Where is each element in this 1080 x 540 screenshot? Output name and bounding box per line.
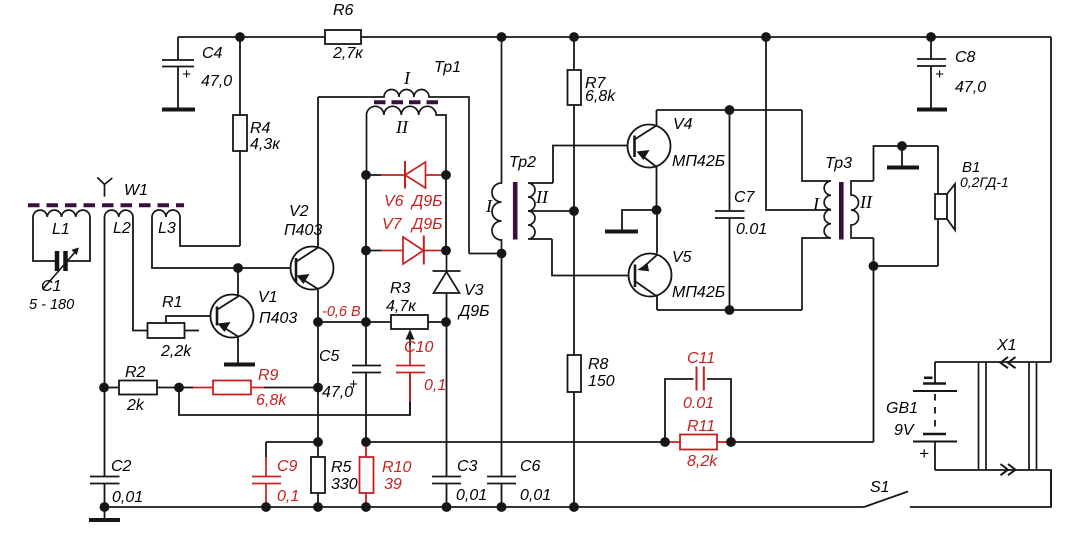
resistor R8: [568, 355, 582, 507]
node C6 bottom on rail: [497, 502, 507, 512]
wire Tp3-II top to speaker top: [874, 146, 939, 181]
svg-text:V4: V4: [673, 116, 693, 133]
node Tp2 winding I bottom: [497, 249, 507, 259]
wire L1 loop: [33, 217, 90, 261]
svg-text:R2: R2: [125, 364, 146, 381]
svg-text:R6: R6: [333, 2, 354, 19]
node Tp2 winding I bottom: [469, 253, 502, 255]
winding I of Tp3: [802, 110, 831, 310]
transformer Tp2: [485, 37, 553, 254]
svg-text:C8: C8: [955, 49, 976, 66]
speaker B1: [935, 146, 955, 266]
svg-text:С10: С10: [404, 339, 433, 356]
node R11/C11 right: [726, 437, 736, 447]
svg-text:I: I: [403, 68, 411, 88]
ferrite rod (dashed core): [28, 203, 184, 207]
svg-text:X1: X1: [996, 337, 1017, 354]
node R3 left / C5 top: [361, 317, 371, 327]
node Tp2 centre tap at R7/R8: [569, 206, 579, 216]
svg-text:I: I: [812, 194, 820, 214]
antenna W1: [97, 178, 112, 197]
node V1 collector / V2 base junction: [233, 263, 243, 273]
svg-text:V1: V1: [258, 289, 278, 306]
wire R11 node to Tp3-II bottom vertical: [731, 441, 874, 443]
resistor R6: [325, 30, 361, 44]
wire top rail: [178, 36, 1051, 38]
ground at Tp3-II top: [901, 146, 903, 166]
svg-text:+: +: [935, 66, 944, 83]
svg-text:R3: R3: [390, 280, 411, 297]
svg-text:L1: L1: [52, 221, 70, 238]
node C7 bottom on V5 collector wire: [725, 305, 735, 315]
svg-text:Д9Б: Д9Б: [410, 216, 443, 233]
node R9 right on emitter line: [313, 383, 323, 393]
svg-text:2,7к: 2,7к: [332, 45, 364, 62]
capacitor C3: [432, 322, 461, 507]
battery GB1: [913, 362, 957, 470]
wire Tp3-II bottom node: [874, 238, 939, 442]
node R2/R9/C10 junction: [174, 383, 184, 393]
connector X1: [935, 357, 1051, 507]
node C7 top on V4 collector wire: [725, 105, 735, 115]
svg-text:S1: S1: [870, 479, 890, 496]
node R5 bottom on rail: [313, 502, 323, 512]
svg-text:C2: C2: [111, 458, 132, 475]
transistor V4: [628, 110, 671, 210]
inductor L3: [152, 210, 180, 217]
svg-text:0,2ГД-1: 0,2ГД-1: [960, 174, 1009, 190]
winding I of Tp1: [318, 90, 469, 254]
svg-text:МП42Б: МП42Б: [672, 284, 725, 301]
resistor R10: [360, 442, 374, 507]
resistor R11: [665, 435, 731, 450]
node Tp3 secondary bottom / speaker: [869, 261, 879, 271]
svg-text:+: +: [349, 376, 358, 393]
winding II of Tp3: [851, 181, 874, 238]
capacitor C6: [487, 254, 516, 508]
svg-text:II: II: [535, 187, 549, 207]
winding I of Tp2: [492, 37, 502, 254]
svg-text:+: +: [919, 444, 929, 463]
svg-text:С11: С11: [687, 350, 715, 367]
transformer Tp3: [802, 110, 874, 310]
inductor L2: [105, 210, 134, 217]
core of Tp2: [513, 182, 518, 240]
svg-text:C3: C3: [457, 458, 478, 475]
node R5 top / C9: [313, 437, 323, 447]
node R10 bottom on rail: [361, 502, 371, 512]
wire Tp2-II centre tap to R7/R8: [528, 210, 574, 212]
transformer Tp1: [318, 59, 469, 254]
node C5 bottom / R10 top: [361, 437, 371, 447]
capacitor C8: [917, 37, 947, 110]
svg-text:9V: 9V: [894, 422, 915, 439]
wire L2 right down to R1: [133, 217, 148, 331]
svg-text:Тр2: Тр2: [509, 154, 536, 171]
resistor R5: [311, 442, 325, 507]
capacitor C9: [252, 442, 299, 512]
wire V6/V7 ladder verticals: [366, 175, 446, 322]
svg-text:Д9Б: Д9Б: [457, 303, 490, 320]
junction dots on top rail: [235, 32, 936, 42]
transistor V2: [291, 97, 334, 322]
core of Tp1: [374, 100, 438, 104]
svg-text:Д9Б: Д9Б: [410, 193, 443, 210]
svg-text:L2: L2: [113, 220, 131, 237]
svg-text:47,0: 47,0: [201, 73, 232, 90]
svg-text:V5: V5: [672, 249, 692, 266]
svg-text:0,01: 0,01: [456, 487, 487, 504]
svg-text:R5: R5: [331, 459, 352, 476]
switch S1: [864, 492, 908, 508]
svg-text:2k: 2k: [126, 397, 145, 414]
ground below C2: [104, 507, 106, 518]
capacitor C5: [352, 322, 381, 442]
svg-text:МП42Б: МП42Б: [672, 153, 725, 170]
svg-text:5 - 180: 5 - 180: [29, 297, 74, 313]
svg-text:8,2k: 8,2k: [687, 453, 718, 470]
transistor V1: [211, 268, 254, 363]
svg-text:L3: L3: [158, 220, 176, 237]
capacitor C2: [90, 388, 120, 508]
svg-text:GB1: GB1: [886, 400, 918, 417]
winding II of Tp1: [367, 106, 447, 175]
svg-text:39: 39: [384, 476, 402, 493]
capacitor C7: [715, 110, 745, 310]
wire L3 left to V1 collector node and V2 base: [152, 217, 296, 268]
wire Tp2-II bottom to V5 base: [552, 239, 635, 276]
wire V4 collector to Tp3: [657, 109, 803, 111]
svg-text:2,2k: 2,2k: [160, 343, 192, 360]
svg-text:V3: V3: [464, 282, 484, 299]
svg-text:4,3к: 4,3к: [250, 136, 281, 153]
svg-text:0,01: 0,01: [112, 489, 143, 506]
wire bottom rail left of S1: [104, 506, 864, 508]
svg-text:C5: C5: [319, 348, 340, 365]
resistor R1 (trimmer): [148, 316, 218, 338]
wire R2/R9 node down to C10 bottom: [179, 373, 410, 416]
svg-text:C1: C1: [41, 278, 61, 295]
ground V1 emitter: [224, 363, 255, 367]
capacitor C10 with trimmer arrow to R3: [396, 330, 446, 416]
svg-text:0,01: 0,01: [520, 487, 551, 504]
svg-text:0.01: 0.01: [683, 395, 714, 412]
svg-text:R1: R1: [162, 294, 182, 311]
svg-text:0,1: 0,1: [277, 488, 299, 505]
svg-text:0,1: 0,1: [424, 377, 446, 394]
wire top rail branch to Tp3 tap: [766, 37, 831, 210]
wire emitter node row: [318, 321, 446, 323]
wire Tp2-II top to V4 base: [553, 146, 634, 184]
svg-text:6,8k: 6,8k: [585, 88, 616, 105]
wire R10 node to R11: [366, 441, 665, 443]
core of Tp3: [839, 182, 844, 240]
node V4/V5 emitters junction: [652, 205, 662, 215]
svg-text:-0,6 В: -0,6 В: [322, 304, 361, 320]
capacitor C4: [162, 37, 195, 110]
wire L3 right to R4: [180, 217, 240, 246]
resistor R9: [179, 381, 318, 395]
winding II of Tp2: [528, 183, 553, 239]
svg-text:Тр1: Тр1: [434, 59, 461, 76]
wire L2 left down: [104, 217, 106, 387]
svg-text:330: 330: [331, 476, 358, 493]
node C3 bottom on rail: [442, 502, 452, 512]
svg-text:4,7к: 4,7к: [386, 298, 417, 315]
svg-text:R8: R8: [588, 356, 609, 373]
wire right border down to X1: [1050, 37, 1052, 362]
wire bottom rail right of S1 to border: [910, 470, 1051, 507]
svg-text:C7: C7: [734, 189, 756, 206]
svg-text:C4: C4: [202, 45, 223, 62]
svg-text:R4: R4: [250, 120, 271, 137]
resistor R7: [568, 37, 582, 355]
resistor R4: [233, 37, 247, 246]
node R8 bottom on rail: [569, 502, 579, 512]
svg-text:C6: C6: [520, 458, 541, 475]
transistor V5: [629, 210, 672, 310]
node R11/C11 left: [660, 437, 670, 447]
diode V6: [361, 161, 451, 210]
svg-text:П403: П403: [259, 310, 297, 327]
diode V3: [433, 251, 461, 323]
svg-text:V6: V6: [384, 193, 404, 210]
svg-text:П403: П403: [284, 222, 322, 239]
svg-text:V2: V2: [289, 203, 309, 220]
node R3 right / V3 anode: [441, 317, 451, 327]
svg-text:Тр3: Тр3: [825, 155, 852, 172]
node C2 at ground rail: [100, 502, 110, 512]
diode V7: [361, 216, 451, 265]
svg-text:6,8k: 6,8k: [256, 392, 287, 409]
wire V5 collector to Tp3 bottom: [657, 309, 802, 311]
svg-text:0.01: 0.01: [736, 221, 767, 238]
resistor R3: [391, 315, 428, 329]
svg-text:W1: W1: [124, 182, 148, 199]
capacitor C11: [665, 350, 731, 442]
capacitor C1 (variable): [29, 248, 79, 314]
svg-text:+: +: [182, 66, 191, 83]
svg-text:C9: C9: [277, 458, 298, 475]
wire C9 to R5 node: [266, 441, 318, 443]
svg-text:II: II: [395, 117, 409, 137]
svg-text:V7: V7: [382, 216, 403, 233]
svg-text:150: 150: [588, 373, 615, 390]
node ground tap at Tp3 secondary: [897, 141, 907, 151]
wire V2 emitter vertical: [317, 322, 319, 442]
node V2 emitter -0,6V: [313, 317, 323, 327]
inductor L1: [33, 210, 90, 217]
resistor R2: [104, 381, 179, 395]
svg-text:R11: R11: [687, 418, 715, 435]
ground V4/V5 emitters: [622, 210, 657, 230]
svg-text:47,0: 47,0: [955, 79, 986, 96]
node R2 left / L2 line junction: [99, 383, 109, 393]
svg-text:R10: R10: [382, 459, 411, 476]
svg-text:I: I: [485, 196, 493, 216]
svg-text:II: II: [859, 192, 873, 212]
svg-text:R9: R9: [258, 367, 279, 384]
